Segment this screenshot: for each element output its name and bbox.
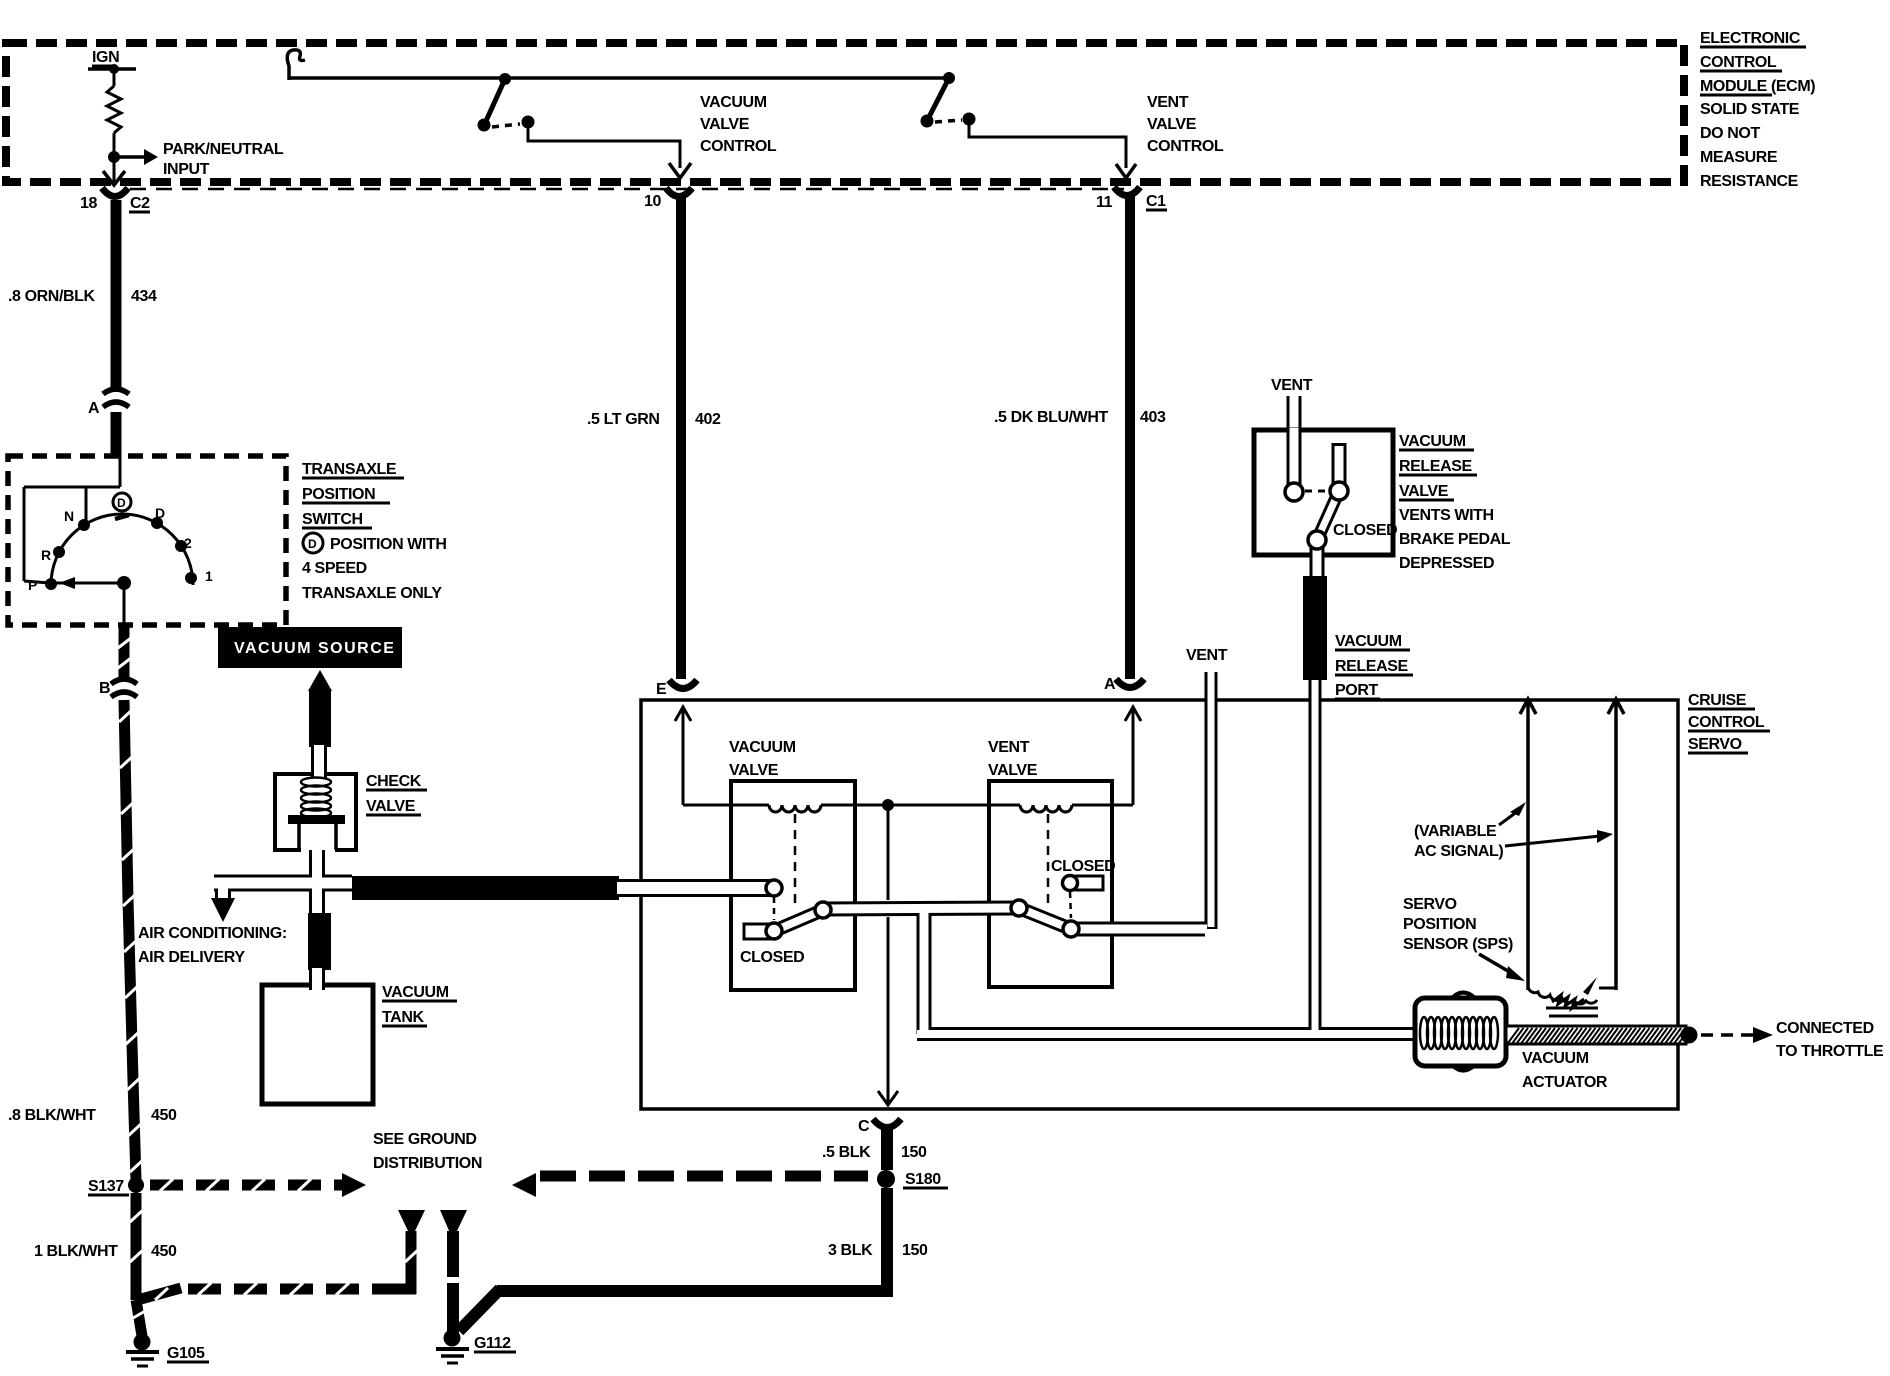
svg-text:11: 11	[1096, 194, 1113, 211]
svg-text:.5 BLK: .5 BLK	[822, 1144, 871, 1161]
svg-text:(VARIABLE: (VARIABLE	[1414, 823, 1497, 840]
svg-text:C: C	[858, 1118, 870, 1135]
svg-text:CLOSED: CLOSED	[1333, 522, 1397, 539]
svg-text:INPUT: INPUT	[163, 161, 210, 178]
svg-text:RELEASE: RELEASE	[1335, 658, 1408, 675]
svg-text:VALVE: VALVE	[988, 762, 1038, 779]
svg-text:TRANSAXLE ONLY: TRANSAXLE ONLY	[302, 585, 442, 602]
svg-text:VALVE: VALVE	[1147, 116, 1197, 133]
svg-text:1 BLK/WHT: 1 BLK/WHT	[34, 1243, 118, 1260]
svg-text:P: P	[28, 577, 37, 593]
svg-text:CLOSED: CLOSED	[1051, 858, 1115, 875]
svg-text:TANK: TANK	[382, 1009, 424, 1026]
svg-text:AC SIGNAL): AC SIGNAL)	[1414, 843, 1503, 860]
svg-text:VACUUM: VACUUM	[729, 739, 796, 756]
svg-text:DEPRESSED: DEPRESSED	[1399, 555, 1494, 572]
svg-text:450: 450	[151, 1243, 177, 1260]
svg-text:D: D	[117, 496, 126, 510]
svg-text:S137: S137	[88, 1178, 124, 1195]
svg-text:CONTROL: CONTROL	[1147, 138, 1224, 155]
svg-text:ELECTRONIC: ELECTRONIC	[1700, 30, 1801, 47]
svg-text:ACTUATOR: ACTUATOR	[1522, 1074, 1608, 1091]
svg-text:.5 LT GRN: .5 LT GRN	[587, 411, 660, 428]
svg-text:SOLID STATE: SOLID STATE	[1700, 101, 1800, 118]
svg-text:SERVO: SERVO	[1688, 736, 1742, 753]
svg-text:RELEASE: RELEASE	[1399, 458, 1472, 475]
svg-text:SENSOR (SPS): SENSOR (SPS)	[1403, 936, 1513, 953]
svg-text:.8 ORN/BLK: .8 ORN/BLK	[8, 288, 96, 305]
svg-text:G112: G112	[474, 1335, 511, 1352]
svg-text:PARK/NEUTRAL: PARK/NEUTRAL	[163, 141, 284, 158]
svg-text:SERVO: SERVO	[1403, 896, 1457, 913]
svg-text:C1: C1	[1146, 193, 1166, 210]
svg-text:MEASURE: MEASURE	[1700, 149, 1778, 166]
svg-text:AIR CONDITIONING:: AIR CONDITIONING:	[138, 925, 287, 942]
svg-text:VENT: VENT	[1271, 377, 1313, 394]
svg-text:A: A	[88, 400, 100, 417]
svg-text:AIR DELIVERY: AIR DELIVERY	[138, 949, 245, 966]
svg-text:1: 1	[205, 568, 213, 584]
svg-text:SWITCH: SWITCH	[302, 511, 363, 528]
svg-text:VACUUM: VACUUM	[1522, 1050, 1589, 1067]
svg-text:R: R	[41, 547, 51, 563]
svg-text:TRANSAXLE: TRANSAXLE	[302, 461, 397, 478]
svg-text:VENTS WITH: VENTS WITH	[1399, 507, 1494, 524]
svg-text:VACUUM: VACUUM	[700, 94, 767, 111]
svg-text:VACUUM: VACUUM	[1335, 633, 1402, 650]
svg-text:VACUUM: VACUUM	[382, 984, 449, 1001]
svg-text:VALVE: VALVE	[700, 116, 750, 133]
svg-text:402: 402	[695, 411, 721, 428]
svg-text:IGN: IGN	[92, 49, 119, 66]
svg-text:C2: C2	[130, 195, 150, 212]
svg-text:VALVE: VALVE	[366, 798, 416, 815]
svg-text:POSITION: POSITION	[302, 486, 375, 503]
svg-text:SEE GROUND: SEE GROUND	[373, 1131, 477, 1148]
svg-text:450: 450	[151, 1107, 177, 1124]
svg-text:VENT: VENT	[1147, 94, 1189, 111]
svg-text:CONNECTED: CONNECTED	[1776, 1020, 1874, 1037]
svg-text:150: 150	[902, 1242, 928, 1259]
svg-text:VACUUM SOURCE: VACUUM SOURCE	[234, 640, 395, 657]
svg-text:N: N	[64, 508, 74, 524]
svg-text:POSITION: POSITION	[1403, 916, 1476, 933]
svg-text:PORT: PORT	[1335, 682, 1378, 699]
svg-text:4 SPEED: 4 SPEED	[302, 560, 367, 577]
svg-text:.5 DK BLU/WHT: .5 DK BLU/WHT	[994, 409, 1109, 426]
svg-text:MODULE (ECM): MODULE (ECM)	[1700, 78, 1815, 95]
svg-text:18: 18	[80, 195, 97, 212]
svg-text:DO NOT: DO NOT	[1700, 125, 1760, 142]
svg-text:150: 150	[901, 1144, 927, 1161]
svg-text:A: A	[1104, 676, 1116, 693]
svg-text:RESISTANCE: RESISTANCE	[1700, 173, 1799, 190]
svg-text:VACUUM: VACUUM	[1399, 433, 1466, 450]
svg-text:VALVE: VALVE	[1399, 483, 1449, 500]
svg-text:BRAKE PEDAL: BRAKE PEDAL	[1399, 531, 1511, 548]
svg-text:403: 403	[1140, 409, 1166, 426]
svg-text:POSITION WITH: POSITION WITH	[330, 536, 447, 553]
svg-text:S180: S180	[905, 1171, 941, 1188]
svg-text:VALVE: VALVE	[729, 762, 779, 779]
svg-text:TO THROTTLE: TO THROTTLE	[1776, 1043, 1884, 1060]
svg-text:VENT: VENT	[1186, 647, 1228, 664]
svg-text:CONTROL: CONTROL	[1688, 714, 1765, 731]
svg-text:.8 BLK/WHT: .8 BLK/WHT	[8, 1107, 96, 1124]
svg-text:434: 434	[131, 288, 157, 305]
svg-text:VENT: VENT	[988, 739, 1030, 756]
svg-text:D: D	[308, 537, 317, 551]
svg-text:CLOSED: CLOSED	[740, 949, 804, 966]
svg-text:2: 2	[184, 535, 192, 551]
svg-text:D: D	[155, 505, 165, 521]
svg-text:B: B	[99, 680, 110, 697]
svg-text:CONTROL: CONTROL	[1700, 54, 1777, 71]
svg-text:CHECK: CHECK	[366, 773, 422, 790]
svg-text:3 BLK: 3 BLK	[828, 1242, 873, 1259]
svg-text:G105: G105	[167, 1345, 205, 1362]
svg-text:CRUISE: CRUISE	[1688, 692, 1747, 709]
svg-text:E: E	[656, 681, 667, 698]
svg-text:10: 10	[644, 193, 661, 210]
svg-text:CONTROL: CONTROL	[700, 138, 777, 155]
svg-text:DISTRIBUTION: DISTRIBUTION	[373, 1155, 482, 1172]
